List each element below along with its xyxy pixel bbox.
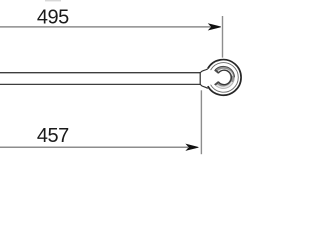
band inner dark edge — [218, 70, 231, 84]
clip band (C-shaped bushing) — [215, 66, 235, 88]
arrowhead 495 — [209, 24, 221, 30]
arrowhead 457 — [186, 144, 198, 150]
extension line right (495) — [222, 16, 224, 58]
svg-text:495: 495 — [37, 7, 69, 29]
band tip butt ends — [215, 70, 218, 73]
band highlight — [217, 69, 232, 75]
svg-text:457: 457 — [37, 125, 69, 147]
faint cropped marks at top edge — [45, 0, 61, 1]
extension line right (457) — [200, 90, 202, 154]
dimension line 457 — [0, 146, 188, 148]
eyelet inner rim circle — [211, 63, 239, 93]
rod (wiper/torsion bar shaft) — [0, 73, 200, 85]
band outer edge — [215, 66, 234, 77]
eyelet outer circle — [208, 60, 241, 96]
dimension line 495 — [0, 26, 211, 28]
band tip curls — [215, 70, 219, 73]
collar / neck connecting rod to eyelet — [200, 69, 208, 89]
